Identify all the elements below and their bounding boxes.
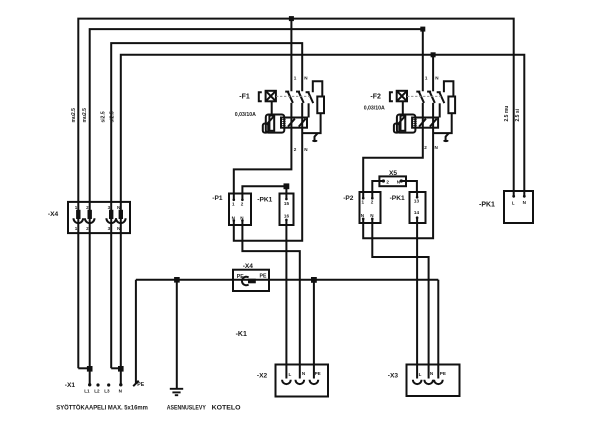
svg-text:1: 1 (294, 75, 297, 80)
svg-text:2.5 mu: 2.5 mu (504, 106, 510, 122)
transformer diagonal 1 (419, 119, 426, 127)
X4 terminal N bar (119, 210, 123, 219)
ground symbol (170, 389, 183, 395)
X1 terminal L1 tip (88, 383, 91, 386)
X4 terminal N cup (116, 218, 126, 223)
svg-text:PE: PE (137, 382, 144, 388)
X2 body (276, 365, 329, 397)
svg-text:mu2.5: mu2.5 (82, 108, 88, 123)
mechanical link (dashed) (407, 95, 441, 97)
sensing coil diagonal (267, 116, 275, 125)
node PE bus to X2 dot (311, 277, 317, 283)
X3 cup L (413, 380, 422, 384)
X4 PE terminal bar (248, 279, 256, 284)
wire F2 N out to P2 terminal N1 (363, 103, 433, 238)
mechanical link (dashed) (276, 95, 310, 97)
P2 body (360, 192, 381, 223)
node PE bus to earth dot (174, 277, 180, 283)
svg-text:0,03/10A: 0,03/10A (364, 105, 385, 111)
svg-text:2: 2 (86, 205, 89, 210)
wire F1 phase drop (290, 19, 292, 92)
sensing coil bulge (394, 124, 399, 133)
contact trip pole (439, 92, 444, 104)
svg-text:16: 16 (284, 214, 290, 219)
X2 cup N (296, 380, 305, 384)
X2 cup PE (310, 380, 319, 384)
X1 terminal N tip (119, 383, 122, 386)
trip actuator foot (443, 140, 448, 142)
svg-text:-X1: -X1 (65, 382, 76, 389)
test button bracket (390, 92, 393, 101)
current transformer U1 (281, 118, 307, 128)
X4 terminal 1 bar (76, 210, 80, 219)
svg-text:-PK1: -PK1 (390, 195, 405, 202)
svg-text:-P1: -P1 (212, 195, 223, 202)
svg-text:1: 1 (425, 75, 428, 80)
node X5 left terminal dot (382, 179, 385, 182)
wire N bus (line 4: X1-N terminal up, across, down to right -PK1 N) (121, 55, 525, 385)
node junction square X1-N (118, 366, 124, 372)
PE bus (136, 279, 438, 281)
sensing coil diagonal (398, 116, 406, 125)
X3 cup PE (434, 380, 443, 384)
terminal block X4 left (48, 202, 130, 233)
lamp box PK1 right (479, 106, 533, 223)
PK1 body (280, 194, 294, 226)
svg-text:-X3: -X3 (388, 372, 399, 379)
svg-text:-F2: -F2 (370, 94, 381, 101)
svg-text:-P2: -P2 (343, 195, 354, 202)
svg-text:1: 1 (75, 226, 78, 231)
wire resistor to N pole (433, 113, 452, 133)
contact pole N (298, 91, 303, 103)
X5 body (379, 176, 406, 186)
PK1 stub 14 (416, 218, 418, 223)
contact trip pole foot (437, 91, 441, 93)
wire P1 N2 to X2 N (242, 225, 299, 379)
terminal block X5 (379, 170, 406, 186)
X4 PE body (233, 270, 269, 291)
X1 terminal L3 dot (107, 383, 110, 386)
wire P2 N2 to X3 N (372, 223, 428, 379)
svg-text:mu2.5: mu2.5 (71, 108, 77, 123)
wire F2 pole2 to P2 terminal 1 (363, 103, 423, 192)
wire PK1 pin14 to X3 L (416, 223, 418, 379)
node X5 right terminal dot (400, 179, 403, 182)
PE tick at X1 (133, 381, 139, 387)
wire L1 phase bus (top line 1: X1-L1 up, across, down to right -PK1 L) (78, 19, 513, 369)
wire N branch (line 3: X1-N up, across, down to F1 N pole) (111, 43, 302, 368)
X4 terminal 3 bar (109, 210, 113, 219)
svg-text:2.5 si: 2.5 si (515, 108, 521, 121)
svg-text:-PK1: -PK1 (479, 201, 495, 208)
RCD breaker F1 (235, 75, 324, 152)
svg-text:L1: L1 (84, 389, 90, 394)
PK1 stub 13 (416, 192, 418, 197)
wire jog X1-N to branch (111, 367, 121, 369)
wire F1 pole2 to P1 terminal 1 (234, 103, 292, 194)
svg-text:3: 3 (108, 205, 111, 210)
test loop wire top (444, 81, 454, 96)
wire L1 branch bus (line 2: X1-L1 terminal up, across to F2) (90, 29, 423, 385)
socket X2 (257, 365, 328, 397)
svg-text:X5: X5 (389, 170, 397, 177)
P2 stub N2 (371, 219, 373, 223)
svg-text:1: 1 (362, 200, 365, 205)
P1 stub N2 (241, 221, 243, 225)
X3 body (407, 365, 460, 397)
svg-text:-X2: -X2 (257, 372, 268, 379)
svg-text:L: L (419, 372, 422, 377)
P2 stub N1 (362, 219, 364, 223)
svg-text:si2.5: si2.5 (110, 111, 116, 122)
X4 terminal 2 bar (87, 210, 91, 219)
node junction dot on line1 feeding F1 (289, 16, 294, 21)
sensing coil bulge (263, 124, 268, 133)
test button T2 (397, 91, 407, 102)
svg-text:-F1: -F1 (239, 94, 250, 101)
trip actuator diagonal (314, 133, 318, 137)
X4 terminal 2 cup (85, 218, 95, 223)
X4 terminal 1 cup (74, 218, 84, 223)
svg-text:PE: PE (315, 371, 321, 376)
X3 cup N (424, 380, 433, 384)
transformer diagonal 2 (430, 119, 437, 127)
transformer diagonal 2 (299, 119, 306, 127)
contact pole 1 (288, 91, 293, 103)
svg-text:-K1: -K1 (236, 331, 247, 338)
socket X3 (388, 365, 460, 397)
PK1 stub 15 (285, 194, 287, 199)
wire resistor to N pole (302, 113, 321, 133)
P1 body (229, 194, 251, 226)
contact pole N foot (296, 91, 300, 93)
test button T1 (266, 91, 276, 102)
P1 stub pin2 (241, 194, 243, 200)
contact pole 1 foot (416, 91, 420, 93)
contact pole N (430, 91, 435, 103)
PK1 body (504, 191, 533, 223)
svg-text:-X4: -X4 (48, 211, 59, 218)
P2 stub pin2 (371, 192, 373, 198)
sensing coil outer (397, 115, 416, 133)
meter P2 (343, 192, 380, 223)
X4 terminal 3 cup (106, 218, 116, 223)
svg-text:2: 2 (241, 201, 244, 206)
sensing coil core bar (401, 116, 406, 131)
svg-text:L: L (289, 372, 292, 377)
resistor R2 (448, 97, 455, 114)
X2 cup L (282, 380, 291, 384)
trip actuator foot (312, 140, 317, 142)
wire F2 N drop (432, 55, 434, 92)
wire trip pole to transformer (439, 103, 441, 117)
svg-text:13: 13 (414, 199, 420, 204)
wire P2 terminal2 to X5 (372, 181, 383, 192)
svg-text:si2.5: si2.5 (101, 111, 107, 122)
wire trip pole to transformer (308, 103, 310, 117)
wire PE drop to X3 (437, 280, 439, 379)
contact pole 1 (419, 91, 424, 103)
wire PE riser to X1 (135, 280, 137, 384)
relay contact PK1 (15-16) (257, 194, 293, 226)
terminal block X4 PE (middle) (233, 263, 269, 291)
wire P1 terminal2 to PK1 pin15 (242, 186, 286, 193)
PK1 stub L (512, 195, 515, 198)
PK1 stub 16 (285, 220, 287, 225)
transformer diagonal 1 (288, 119, 295, 127)
contact trip pole foot (306, 91, 310, 93)
PK1 stub N (523, 195, 526, 198)
svg-text:L2: L2 (94, 389, 100, 394)
terminal X1 (65, 382, 145, 394)
svg-text:L3: L3 (104, 389, 110, 394)
test button cross (266, 91, 276, 102)
svg-text:15: 15 (284, 201, 290, 206)
svg-text:KOTELO: KOTELO (212, 404, 241, 411)
contact trip pole (308, 92, 313, 104)
wire jog X1-L1 to branch (78, 367, 89, 369)
X4 PE terminal arc (242, 277, 249, 286)
svg-text:14: 14 (414, 210, 420, 215)
trip actuator diagonal (445, 133, 449, 137)
svg-text:-X4: -X4 (243, 263, 254, 270)
trip actuator stem (445, 137, 447, 141)
svg-text:2: 2 (294, 147, 297, 152)
sensing coil outer (266, 115, 285, 133)
PK1 body (410, 192, 426, 223)
wire F1 N out to P1 terminal N1 (234, 103, 302, 241)
node corner dot at PK1 pin15 (284, 183, 290, 189)
svg-text:PE: PE (440, 371, 446, 376)
contact pole N foot (427, 91, 431, 93)
sensing coil core bar (269, 116, 274, 131)
test button bracket (259, 92, 262, 101)
transformer winding ticks (413, 120, 416, 126)
test button cross (397, 91, 407, 102)
wire X5 to PK1 pin13 (401, 181, 417, 192)
svg-text:1: 1 (75, 205, 78, 210)
wire earth drop (176, 280, 178, 389)
svg-text:3: 3 (108, 226, 111, 231)
meter P1 (212, 194, 251, 226)
node junction dot on line2 at F2 (420, 27, 425, 32)
svg-text:SYÖTTÖKAAPELI MAX. 5x16mm: SYÖTTÖKAAPELI MAX. 5x16mm (56, 402, 148, 411)
svg-text:1: 1 (232, 201, 235, 206)
svg-text:-PK1: -PK1 (257, 196, 272, 203)
contact pole 1 foot (285, 91, 289, 93)
RCD breaker F2 (364, 75, 455, 149)
svg-text:0,03/10A: 0,03/10A (235, 112, 256, 118)
svg-text:L: L (512, 200, 515, 205)
svg-text:2: 2 (371, 200, 374, 205)
svg-text:ASENNUSLEVY: ASENNUSLEVY (167, 404, 206, 411)
trip actuator stem (314, 137, 316, 141)
P2 stub pin1 (362, 192, 364, 198)
node junction square X1-L1 (87, 366, 93, 372)
svg-text:2: 2 (386, 179, 389, 184)
test loop wire top (313, 81, 323, 96)
node junction dot on line4 at F2 N (431, 52, 436, 57)
test button lead (271, 101, 273, 114)
P1 stub N1 (233, 221, 235, 225)
resistor R1 (317, 97, 324, 114)
wire PE drop to X2 (313, 280, 315, 379)
X1 terminal L2 dot (96, 383, 99, 386)
X4 body (68, 202, 130, 233)
relay contact PK1 (13-14) (390, 192, 426, 223)
wire PK1 pin16 to X2 L (285, 225, 287, 379)
test button lead (402, 101, 404, 114)
svg-text:2: 2 (424, 145, 427, 150)
P1 stub pin1 (233, 194, 235, 200)
svg-text:PE: PE (260, 274, 267, 280)
transformer winding ticks (282, 120, 285, 126)
svg-text:2: 2 (86, 226, 89, 231)
current transformer U2 (412, 118, 438, 128)
